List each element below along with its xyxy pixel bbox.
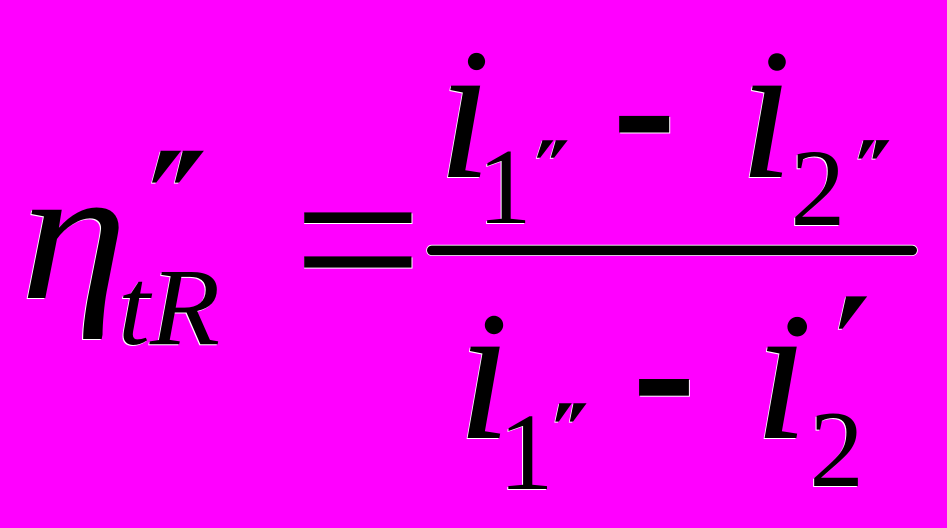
prime denominator i2: [838, 296, 867, 329]
double prime numerator sub 2: [857, 140, 889, 160]
denominator subscript 2: [809, 395, 864, 504]
denominator subscript 1: [499, 397, 554, 507]
double prime over eta: [151, 151, 204, 184]
subscript tR: [118, 252, 220, 362]
double prime numerator sub 1: [536, 140, 568, 159]
dot over numerator i1: [468, 53, 485, 70]
minus sign denominator: [639, 379, 690, 397]
numerator i1: [437, 12, 492, 211]
eta symbol: [20, 138, 128, 330]
minus sign numerator: [619, 116, 670, 134]
denominator i1: [457, 273, 512, 472]
denominator i2: [754, 273, 809, 472]
dot over denominator i2: [787, 317, 807, 337]
dot over numerator i2: [768, 53, 786, 71]
numerator subscript 1: [478, 134, 532, 242]
numerator i2: [739, 12, 794, 211]
dot over denominator i1: [485, 316, 503, 334]
double prime denominator sub 1: [554, 403, 586, 422]
equals sign: [304, 212, 412, 268]
fraction bar: [426, 245, 918, 256]
numerator subscript 2: [790, 133, 845, 243]
